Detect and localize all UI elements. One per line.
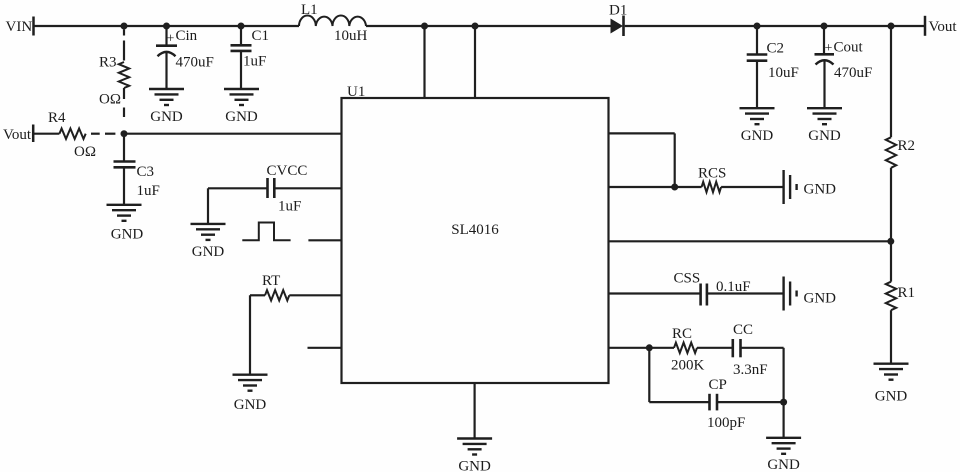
wire RCS to ground	[721, 186, 784, 188]
svg-text:GND: GND	[111, 227, 144, 243]
ground under U1	[457, 439, 492, 455]
wire pin1 down to RCS node	[674, 133, 676, 187]
wire U1 left pin stub (clock)	[308, 239, 341, 241]
wire Cout bottom lead	[823, 61, 825, 108]
wire U1 right pin5	[609, 347, 650, 349]
wire Cout top lead	[823, 26, 825, 54]
capacitor CSS	[701, 284, 707, 306]
resistor R2	[886, 137, 896, 168]
svg-text:1uF: 1uF	[243, 54, 266, 70]
wire C2 bottom lead	[756, 61, 758, 108]
capacitor CVCC	[268, 178, 275, 198]
IC U1 box	[342, 98, 609, 383]
wire Vout to R2	[890, 26, 892, 137]
svg-text:R1: R1	[898, 285, 916, 301]
junction node divider	[887, 238, 894, 245]
svg-text:SL4016: SL4016	[451, 222, 499, 238]
junction node comp	[646, 344, 653, 351]
svg-text:200K: 200K	[671, 358, 705, 374]
wire node to R1	[890, 241, 892, 281]
wire dash R4 to junction a	[91, 133, 100, 135]
wire U1 bottom ground lead	[474, 383, 476, 439]
svg-text:+: +	[825, 41, 833, 56]
svg-text:Cout: Cout	[834, 40, 864, 56]
terminal tick VIN	[32, 17, 35, 36]
wire CSS to ground	[707, 292, 783, 294]
wire comp left vertical	[648, 348, 650, 402]
resistor R1	[886, 282, 896, 311]
resistor RCS	[702, 182, 722, 192]
wire RT ground lead	[249, 295, 251, 374]
wire U1 right pin2	[609, 186, 675, 188]
svg-text:C2: C2	[767, 41, 785, 57]
svg-text:GND: GND	[225, 109, 258, 125]
capacitor C3	[114, 162, 136, 168]
diode D1	[611, 16, 624, 37]
wire top rail: VIN to L1	[34, 25, 300, 27]
inductor L1	[299, 16, 366, 26]
svg-text:GND: GND	[458, 459, 491, 472]
wire R2 to node	[890, 168, 892, 242]
ground under Cout	[807, 108, 842, 124]
svg-text:470uF: 470uF	[834, 65, 872, 81]
svg-text:GND: GND	[150, 109, 183, 125]
junction node R2 top	[888, 23, 895, 30]
capacitor C2	[747, 55, 768, 61]
wire U1 top pin a	[423, 26, 425, 98]
ground under C3	[107, 205, 142, 221]
svg-text:CP: CP	[709, 377, 727, 393]
junction node C1 top	[238, 23, 245, 30]
wire top rail: D1 to Vout	[625, 25, 925, 27]
junction node R3 top	[121, 23, 128, 30]
resistor R3	[119, 62, 129, 88]
wire comp node to ground	[782, 402, 784, 438]
svg-text:GND: GND	[234, 397, 267, 413]
ground under C1	[224, 89, 259, 105]
resistor RT	[265, 290, 289, 300]
svg-text:3.3nF: 3.3nF	[733, 362, 768, 378]
svg-text:R2: R2	[898, 138, 916, 154]
svg-text:GND: GND	[767, 457, 800, 472]
wire U1 right pin3 to divider	[609, 240, 891, 242]
svg-text:Vout: Vout	[929, 19, 958, 35]
ground under R1	[874, 364, 909, 380]
svg-text:10uF: 10uF	[768, 65, 799, 81]
wire U1 right pin1	[609, 132, 675, 134]
svg-text:GND: GND	[804, 182, 837, 198]
wire C1 bottom lead	[240, 51, 242, 89]
wire RC to CC	[697, 347, 733, 349]
svg-text:GND: GND	[192, 244, 225, 260]
wire R3 lower lead	[123, 88, 125, 99]
ground under Cin	[149, 89, 184, 105]
wire Vout to R4	[33, 133, 59, 135]
wire R3 upper dashed lead	[123, 41, 125, 61]
svg-text:RC: RC	[672, 326, 692, 342]
wire R3 upper dash stub	[123, 30, 125, 36]
svg-text:GND: GND	[808, 128, 841, 144]
svg-text:R3: R3	[99, 55, 117, 71]
resistor RC	[674, 343, 697, 353]
wire CP left lead	[649, 401, 709, 403]
junction node feedback	[121, 130, 128, 137]
svg-text:470uF: 470uF	[176, 55, 214, 71]
wire Cin top lead	[165, 26, 167, 46]
resistor R4	[59, 129, 85, 139]
svg-text:GND: GND	[804, 291, 837, 307]
terminal tick Vout left	[32, 125, 35, 143]
svg-text:1uF: 1uF	[137, 183, 160, 199]
capacitor Cin (electrolytic)	[156, 46, 177, 57]
svg-text:OΩ: OΩ	[74, 144, 96, 160]
terminal tick Vout right	[924, 16, 927, 36]
wire CVCC ground lead	[207, 188, 209, 224]
svg-text:Cin: Cin	[176, 28, 198, 44]
ground under compensation	[766, 438, 801, 454]
wire C3 bottom lead	[123, 167, 125, 205]
junction node Cin top	[163, 23, 170, 30]
capacitor CC	[733, 339, 741, 357]
junction node RCS	[671, 184, 678, 191]
svg-text:CC: CC	[733, 322, 753, 338]
svg-text:R4: R4	[48, 110, 66, 126]
svg-text:100pF: 100pF	[707, 415, 745, 431]
junction node C2 top	[754, 23, 761, 30]
wire RCS left lead	[675, 186, 702, 188]
wire R3 lower dash	[123, 108, 125, 118]
svg-text:CSS: CSS	[674, 270, 701, 286]
wire U1 right pin4	[609, 292, 701, 294]
svg-text:VIN: VIN	[6, 19, 33, 35]
wire R1 to ground	[890, 310, 892, 364]
wire CVCC to U1	[274, 187, 341, 189]
ground under RT	[233, 375, 268, 391]
ground sideways RCS	[784, 170, 797, 204]
svg-text:GND: GND	[741, 128, 774, 144]
svg-text:D1: D1	[609, 3, 627, 19]
wire C1 top lead	[240, 26, 242, 45]
svg-text:Vout: Vout	[3, 127, 32, 143]
svg-text:OΩ: OΩ	[99, 92, 121, 108]
wire top rail: L1 to D1	[366, 25, 611, 27]
capacitor C1	[231, 45, 252, 51]
junction node comp ground	[780, 399, 787, 406]
wire U1 left pin stub (lower)	[308, 347, 342, 349]
wire CP right lead	[717, 401, 783, 403]
wire Cin bottom lead	[165, 53, 167, 90]
wire C2 top lead	[756, 26, 758, 55]
wire RT left lead	[250, 294, 265, 296]
junction node U1 VIN pin b	[472, 23, 479, 30]
svg-text:U1: U1	[347, 84, 365, 100]
svg-text:GND: GND	[875, 389, 908, 405]
wire C3 top lead	[123, 134, 125, 162]
junction node Cout top	[821, 23, 828, 30]
junction node U1 VIN pin a	[421, 23, 428, 30]
svg-text:10uH: 10uH	[334, 28, 368, 44]
wire comp right vertical	[782, 348, 784, 402]
wire CVCC left	[208, 187, 267, 189]
svg-text:L1: L1	[301, 2, 318, 18]
capacitor Cout (electrolytic)	[815, 54, 835, 64]
capacitor CP	[710, 394, 718, 411]
svg-text:1uF: 1uF	[278, 199, 301, 215]
wire dash R4 to junction b	[105, 133, 115, 135]
svg-text:+: +	[167, 32, 175, 47]
wire feedback to U1	[124, 133, 342, 135]
wire U1 top pin b	[474, 26, 476, 98]
svg-text:C3: C3	[137, 164, 155, 180]
svg-text:C1: C1	[252, 28, 270, 44]
svg-text:CVCC: CVCC	[267, 163, 308, 179]
ground under CVCC	[191, 224, 226, 240]
wire comp node to RC	[649, 347, 674, 349]
wire CC to corner	[741, 347, 784, 349]
wire RT to U1	[289, 294, 341, 296]
ground under C2	[740, 108, 775, 124]
svg-text:RCS: RCS	[698, 166, 726, 182]
svg-text:RT: RT	[262, 273, 280, 289]
clock pulse symbol	[242, 223, 290, 241]
ground sideways CSS	[784, 277, 797, 311]
